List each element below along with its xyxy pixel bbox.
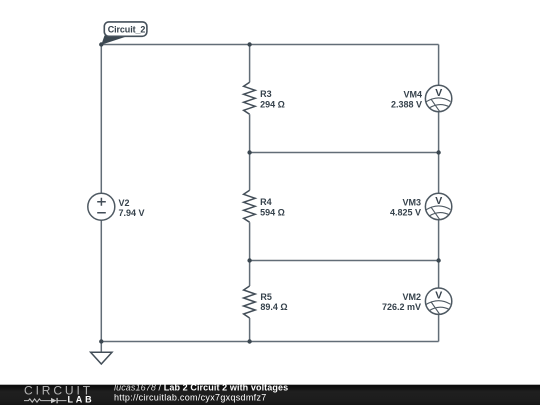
svg-text:V: V: [435, 195, 442, 207]
svg-text:2.388 V: 2.388 V: [391, 100, 422, 110]
svg-text:VM4: VM4: [403, 89, 422, 99]
svg-text:V: V: [435, 87, 442, 99]
svg-text:294 Ω: 294 Ω: [260, 99, 285, 109]
svg-text:4.825 V: 4.825 V: [390, 208, 421, 218]
svg-text:594 Ω: 594 Ω: [260, 207, 285, 217]
svg-text:R3: R3: [260, 89, 272, 99]
svg-text:lucas1678 / Lab 2 Circuit 2 wi: lucas1678 / Lab 2 Circuit 2 with voltage…: [114, 383, 288, 393]
svg-text:VM3: VM3: [402, 197, 421, 207]
svg-text:R5: R5: [260, 292, 272, 302]
svg-text:V2: V2: [119, 198, 130, 208]
svg-text:R4: R4: [260, 197, 272, 207]
svg-text:7.94 V: 7.94 V: [119, 208, 145, 218]
svg-text:http://circuitlab.com/cyx7gxqs: http://circuitlab.com/cyx7gxqsdmfz7: [114, 393, 267, 403]
svg-text:Circuit_2: Circuit_2: [108, 25, 146, 35]
svg-text:726.2 mV: 726.2 mV: [382, 302, 421, 312]
svg-text:VM2: VM2: [402, 292, 421, 302]
svg-text:LAB: LAB: [68, 394, 95, 404]
svg-text:89.4 Ω: 89.4 Ω: [260, 302, 287, 312]
svg-text:V: V: [435, 290, 442, 302]
